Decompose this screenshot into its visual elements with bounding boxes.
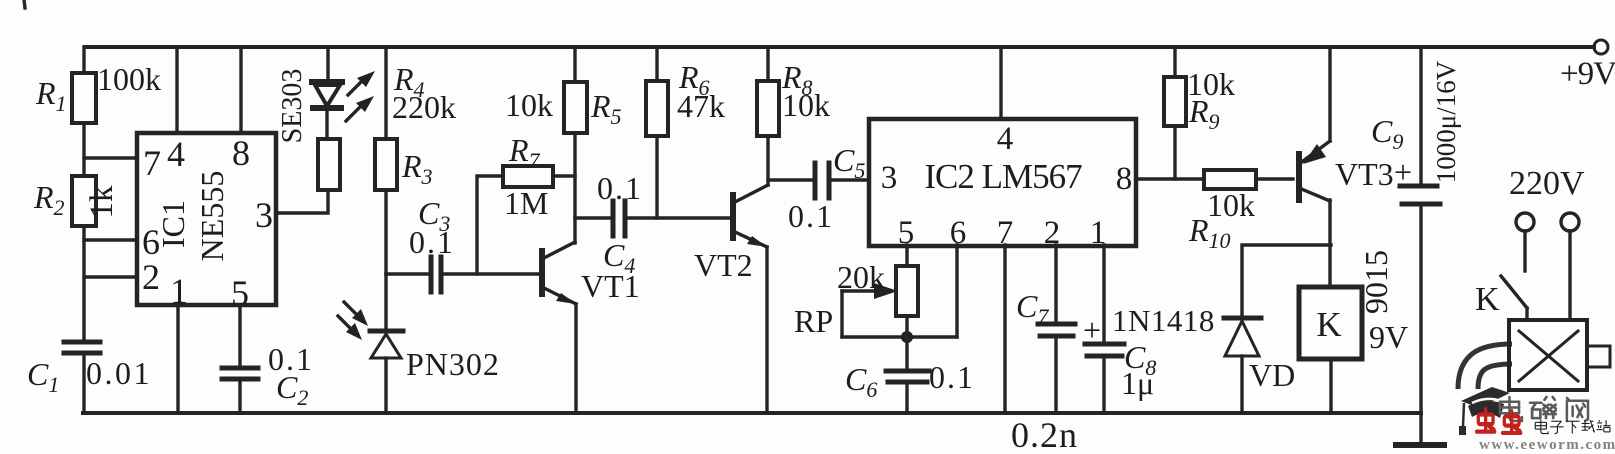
wire R8 top bbox=[766, 47, 769, 81]
resistor in series with SE303 bbox=[318, 139, 340, 190]
svg-text:VD: VD bbox=[1249, 357, 1295, 393]
wire VD to ground bbox=[1240, 356, 1243, 413]
svg-text:1μ: 1μ bbox=[1121, 365, 1154, 401]
capacitor C3 bbox=[431, 257, 441, 292]
wire R5 to VT1 collector bbox=[573, 133, 576, 243]
wire IC2 pin4 to rail bbox=[999, 47, 1002, 117]
wire C7 to ground bbox=[1054, 336, 1057, 413]
resistor R3 bbox=[375, 139, 397, 190]
resistor R2 bbox=[72, 176, 96, 226]
svg-text:10k: 10k bbox=[1207, 187, 1255, 223]
wire R2 to C1 bbox=[82, 226, 85, 341]
transistor Q3 VT3 bbox=[1299, 141, 1330, 201]
wire IC1 pin4 to rail bbox=[175, 47, 178, 133]
wire R3 to C3 node bbox=[384, 190, 387, 274]
svg-text:PN302: PN302 bbox=[406, 346, 500, 382]
svg-text:K: K bbox=[1475, 281, 1500, 318]
svg-text:1k: 1k bbox=[84, 185, 120, 219]
transistor Q2 VT2 bbox=[733, 185, 768, 247]
svg-text:0.1: 0.1 bbox=[409, 224, 455, 260]
svg-text:7: 7 bbox=[143, 143, 161, 183]
svg-text:2: 2 bbox=[142, 257, 160, 297]
wire VT3 emitter to rail bbox=[1328, 47, 1331, 141]
LED SE303 emission arrows bbox=[346, 71, 375, 121]
wire C3 left bbox=[386, 272, 429, 275]
resistor R8 bbox=[757, 81, 779, 136]
watermark text dian ci fa bbox=[1500, 397, 1588, 421]
switch K blade bbox=[1501, 276, 1527, 308]
potentiometer RP wiper arrow bbox=[842, 283, 898, 299]
wire SE303 top bbox=[326, 47, 329, 82]
wire R3 column top bbox=[384, 47, 387, 139]
svg-text:9V: 9V bbox=[1369, 319, 1408, 355]
wire switch to valve bbox=[1525, 308, 1528, 320]
svg-text:1N1418: 1N1418 bbox=[1112, 303, 1215, 338]
wire C5 left bbox=[768, 178, 813, 181]
wire C9 top bbox=[1419, 47, 1422, 185]
svg-text:1000μ/16V: 1000μ/16V bbox=[1431, 60, 1461, 183]
svg-text:1M: 1M bbox=[504, 185, 548, 221]
wire R1 to R2 bbox=[82, 123, 85, 176]
solenoid valve pipe bbox=[1468, 354, 1512, 389]
svg-text:K: K bbox=[1316, 305, 1341, 344]
wire VT2 emitter to ground bbox=[765, 247, 768, 413]
capacitor C8 bbox=[1085, 344, 1124, 356]
wire C5 to IC2 pin3 bbox=[829, 178, 869, 181]
resistor R10 bbox=[1204, 170, 1256, 189]
wire IC2 pin5 to RP bbox=[905, 245, 908, 266]
wire C4 to VT2 base bbox=[625, 216, 730, 219]
resistor R1 bbox=[72, 73, 96, 123]
wire C9 to ground rail bbox=[1419, 204, 1422, 443]
resistor R7 bbox=[503, 166, 553, 187]
capacitor C2 bbox=[222, 368, 258, 379]
wire IC1 pin5 to C2 bbox=[238, 305, 241, 366]
wire VT2 collector to R8 bbox=[766, 136, 769, 185]
svg-text:9015: 9015 bbox=[1358, 250, 1394, 314]
svg-text:100k: 100k bbox=[97, 61, 161, 97]
wire R7 left leg bbox=[477, 176, 503, 274]
wire K to ground bbox=[1329, 359, 1332, 413]
svg-text:4: 4 bbox=[167, 134, 185, 174]
op-amp U2 IC2 LM567 box bbox=[869, 119, 1136, 246]
wire C3 to VT1 base bbox=[441, 272, 539, 275]
relay K box bbox=[1299, 287, 1362, 359]
wire IC1 pin3 to SE303 branch bbox=[276, 190, 328, 213]
svg-text:10k: 10k bbox=[505, 87, 553, 123]
svg-text:0.2n: 0.2n bbox=[1011, 415, 1078, 449]
wire IC1 pin8 to rail bbox=[239, 47, 242, 133]
wire +9V top rail bbox=[85, 45, 1594, 49]
resistor R5 bbox=[564, 82, 587, 133]
wire VT1 emitter to ground bbox=[574, 304, 577, 413]
svg-text:VT3: VT3 bbox=[1335, 156, 1394, 192]
wire RP bottom node bbox=[842, 335, 957, 338]
wire R10 to VT3 base bbox=[1256, 177, 1293, 180]
wire VT3 collector to K bbox=[1328, 200, 1331, 287]
svg-text:2: 2 bbox=[1044, 215, 1061, 251]
svg-text:+9V: +9V bbox=[1560, 56, 1615, 92]
wire R9 top bbox=[1173, 47, 1176, 77]
wire C3 node to PN302 bbox=[384, 274, 387, 330]
svg-text:SE303: SE303 bbox=[277, 69, 308, 144]
op-amp U1 IC1 NE555 box bbox=[137, 133, 276, 305]
capacitor C1 bbox=[64, 342, 100, 353]
wire RP bottom stub bbox=[905, 316, 908, 337]
resistor R9 bbox=[1164, 77, 1186, 126]
svg-text:220k: 220k bbox=[392, 89, 456, 125]
svg-text:4: 4 bbox=[997, 121, 1014, 157]
watermark text download site bbox=[1535, 420, 1610, 434]
node +9V terminal bbox=[1594, 40, 1608, 54]
wire right terminal to valve bbox=[1568, 231, 1571, 320]
svg-text:220V: 220V bbox=[1509, 165, 1585, 202]
wire IC2 pin2 to C7 bbox=[1054, 245, 1057, 323]
capacitor C9 bbox=[1400, 186, 1440, 204]
node RP junction bbox=[901, 331, 913, 343]
wire C1 to ground rail bbox=[82, 353, 85, 413]
watermark graduation cap bbox=[1459, 387, 1510, 435]
svg-text:NE555: NE555 bbox=[194, 171, 230, 262]
svg-text:10k: 10k bbox=[782, 87, 830, 123]
svg-text:0.1: 0.1 bbox=[929, 359, 975, 395]
svg-text:VT2: VT2 bbox=[694, 247, 753, 283]
wire R5 top bbox=[573, 47, 576, 82]
transistor Q1 VT1 bbox=[542, 242, 576, 304]
wire C6 to ground bbox=[905, 382, 908, 413]
wire C4 left bbox=[575, 216, 611, 219]
solenoid valve body bbox=[1509, 320, 1587, 390]
wire ground bottom rail bbox=[83, 411, 1421, 415]
wire C8 to ground bbox=[1102, 356, 1105, 413]
wire IC2 pin8 to R10 bbox=[1136, 177, 1204, 180]
node 220V terminal left bbox=[1516, 213, 1534, 231]
wire RP wiper to bottom bbox=[840, 291, 843, 337]
watermark text chongchong bbox=[1477, 409, 1521, 433]
svg-text:8: 8 bbox=[232, 133, 250, 173]
wire R6 top bbox=[655, 47, 658, 81]
svg-text:0.1: 0.1 bbox=[788, 198, 834, 234]
svg-text:3: 3 bbox=[881, 160, 898, 196]
svg-text:RP: RP bbox=[794, 303, 833, 339]
wire R7 right leg bbox=[553, 174, 575, 177]
wire RP node to C6 bbox=[905, 337, 908, 370]
capacitor C4 bbox=[613, 201, 625, 236]
svg-text:0.1: 0.1 bbox=[597, 170, 643, 206]
svg-text:8: 8 bbox=[1116, 161, 1133, 197]
node 220V terminal right bbox=[1561, 213, 1579, 231]
wire R6 bottom bbox=[655, 136, 658, 218]
svg-text:6: 6 bbox=[142, 222, 160, 262]
wire IC1 pin6 stub bbox=[84, 238, 137, 241]
LED SE303 bbox=[312, 82, 342, 139]
wire IC1 pin2 stub bbox=[84, 275, 137, 278]
wire switch top bbox=[1523, 231, 1526, 271]
svg-text:3: 3 bbox=[255, 195, 273, 235]
svg-text:47k: 47k bbox=[677, 88, 725, 124]
svg-text:0.01: 0.01 bbox=[86, 355, 152, 391]
wire IC1 pin1 to ground bbox=[176, 305, 179, 413]
wire R9 bottom bbox=[1173, 126, 1176, 179]
capacitor C7 bbox=[1038, 324, 1075, 336]
wire IC2 pin1 to C8 bbox=[1102, 245, 1105, 343]
wire IC2 pin6 down bbox=[955, 245, 958, 337]
svg-text:IC2 LM567: IC2 LM567 bbox=[924, 157, 1082, 196]
solenoid valve X mark bbox=[1519, 331, 1578, 381]
photodiode PN302 arrows bbox=[338, 302, 368, 340]
stray mark top left bbox=[24, 0, 25, 8]
svg-text:IC1: IC1 bbox=[155, 200, 191, 248]
resistor R6 bbox=[646, 81, 668, 136]
diode VD bbox=[1224, 318, 1261, 356]
svg-text:www.eeworm.com: www.eeworm.com bbox=[1479, 437, 1615, 449]
capacitor C5 bbox=[815, 163, 829, 198]
potentiometer RP bbox=[896, 266, 918, 316]
wire IC1 pin7 stub bbox=[84, 156, 137, 159]
capacitor C6 bbox=[886, 371, 929, 382]
wire left rail segment above R1 bbox=[82, 47, 85, 73]
wire IC2 pin7 to ground bbox=[1003, 245, 1006, 413]
photodiode PN302 bbox=[370, 331, 403, 413]
wire C2 to ground bbox=[238, 379, 241, 413]
svg-text:20k: 20k bbox=[837, 259, 885, 295]
ground symbol bbox=[1396, 442, 1444, 448]
wire VD branch bbox=[1242, 245, 1331, 316]
solenoid valve nozzle bbox=[1587, 346, 1610, 367]
